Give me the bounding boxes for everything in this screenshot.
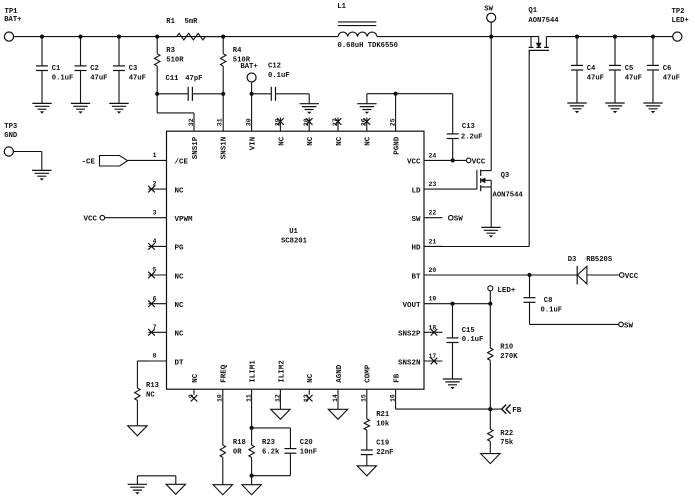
svg-text:R1: R1	[166, 18, 175, 26]
wire C8 to SW circle	[530, 323, 619, 325]
svg-text:ILIM1: ILIM1	[250, 360, 258, 383]
svg-text:R22: R22	[500, 430, 513, 438]
capacitor C6 47uF	[651, 35, 655, 39]
svg-text:HD: HD	[411, 245, 421, 253]
svg-text:/CE: /CE	[175, 159, 189, 167]
wire pin 16 FB down and right	[395, 389, 397, 409]
svg-text:BT: BT	[411, 273, 421, 281]
resistor R3 510R	[156, 37, 158, 54]
terminal BAT+ at VIN	[247, 73, 256, 82]
svg-text:0R: 0R	[233, 449, 242, 457]
wire pin 20 BT to D3	[443, 274, 578, 276]
svg-text:NC: NC	[307, 136, 315, 146]
svg-text:R23: R23	[262, 439, 275, 447]
pin 24 VCC right	[424, 159, 443, 161]
wire L1 to SW node to Q1 source	[377, 36, 539, 38]
svg-text:VPWM: VPWM	[175, 216, 194, 224]
capacitor C11 47pF	[155, 92, 159, 96]
ground R22 triangle	[481, 454, 500, 464]
net tag FB chevrons	[502, 405, 511, 414]
capacitor C5 47uF	[613, 35, 617, 39]
svg-text:R4: R4	[233, 47, 242, 55]
ground C19 triangle	[357, 466, 376, 476]
wire AGND to PGND tie	[137, 475, 175, 477]
svg-text:DT: DT	[175, 359, 185, 367]
pin 19 VOUT right	[424, 303, 443, 305]
svg-text:SC8201: SC8201	[281, 238, 308, 246]
ground pin 12 ILIM2 triangle	[279, 389, 281, 409]
resistor R18 0R	[220, 445, 225, 457]
ground R13 AGND triangle	[128, 426, 147, 436]
pin 28 NC top	[308, 118, 310, 132]
svg-text:47uF: 47uF	[90, 75, 107, 83]
wire pin 24 VCC to VCC circle	[443, 159, 467, 161]
resistor R1 5mR	[155, 35, 159, 39]
svg-text:NC: NC	[175, 302, 185, 310]
capacitor C8 0.1uF bootstrap	[529, 275, 531, 298]
svg-text:C2: C2	[90, 65, 99, 73]
svg-text:1: 1	[153, 152, 157, 159]
svg-text:SW: SW	[411, 216, 421, 224]
wire SNS1N node to pin 31	[222, 94, 224, 131]
svg-text:0.1uF: 0.1uF	[52, 75, 74, 83]
svg-text:24: 24	[429, 152, 437, 159]
resistor R13 NC	[135, 388, 140, 400]
svg-text:NC: NC	[175, 331, 185, 339]
svg-text:47uF: 47uF	[129, 75, 146, 83]
svg-text:FB: FB	[512, 407, 522, 415]
pin 4 PG left	[149, 245, 167, 247]
resistor R22 75k	[489, 409, 491, 429]
svg-text:75k: 75k	[500, 439, 514, 447]
svg-text:VCC: VCC	[83, 216, 97, 224]
svg-text:TP2: TP2	[672, 8, 685, 16]
pin 13 NC bottom	[308, 389, 310, 395]
svg-text:SNS1N: SNS1N	[221, 137, 229, 160]
wire C20 bottom to R23 bottom	[252, 475, 291, 477]
svg-text:C8: C8	[544, 297, 553, 305]
svg-text:C1: C1	[52, 65, 61, 73]
svg-text:5mR: 5mR	[185, 18, 199, 26]
svg-text:GND: GND	[4, 132, 18, 140]
wire Q1 drain to TP2	[546, 36, 672, 38]
ground C12	[300, 104, 319, 110]
svg-text:R21: R21	[376, 411, 390, 419]
svg-text:LED+: LED+	[497, 287, 516, 295]
svg-text:VCC: VCC	[472, 158, 486, 166]
wire pin 8 DT to R13	[137, 360, 148, 362]
wire pin 23 LD to Q3 gate	[443, 188, 477, 190]
svg-text:3: 3	[153, 209, 157, 216]
svg-text:L1: L1	[337, 3, 346, 11]
svg-text:LED+: LED+	[672, 17, 689, 25]
wire Q3 source to ground	[490, 187, 492, 227]
svg-text:NC: NC	[307, 373, 315, 383]
wire pin 25 PGND up	[395, 94, 397, 132]
pin 6 NC left	[149, 303, 167, 305]
svg-text:BAT+: BAT+	[240, 63, 257, 71]
svg-text:NC: NC	[175, 187, 185, 195]
svg-text:AON7544: AON7544	[493, 192, 524, 200]
svg-text:23: 23	[429, 181, 437, 188]
svg-text:VIN: VIN	[250, 137, 258, 151]
svg-text:22nF: 22nF	[376, 449, 393, 457]
svg-text:SW: SW	[624, 322, 634, 330]
svg-text:C15: C15	[462, 327, 475, 335]
svg-text:-CE: -CE	[81, 159, 95, 167]
wire top rail BAT+ to L1	[14, 36, 338, 38]
svg-text:VCC: VCC	[407, 159, 421, 167]
wire pin 11 ILIM1 to R23 and C20	[251, 389, 253, 428]
svg-text:R13: R13	[146, 382, 159, 390]
svg-text:Q1: Q1	[528, 7, 537, 15]
capacitor C4 47uF	[575, 35, 579, 39]
svg-text:FB: FB	[394, 373, 402, 383]
svg-text:2.2uF: 2.2uF	[461, 134, 483, 142]
svg-text:C5: C5	[625, 65, 634, 73]
wire TP3 to ground	[13, 151, 41, 153]
svg-text:47uF: 47uF	[587, 75, 604, 83]
svg-text:0.68uH TDK6550: 0.68uH TDK6550	[338, 42, 398, 50]
svg-text:C19: C19	[376, 439, 389, 447]
wire Q1 gate to HD pin 21	[528, 50, 530, 246]
svg-text:AGND: AGND	[336, 364, 344, 383]
wire SW node down to Q3 drain	[490, 37, 492, 171]
svg-text:SW: SW	[454, 216, 464, 224]
svg-text:R3: R3	[166, 47, 175, 55]
wire PGND rail	[367, 93, 453, 95]
svg-text:NC: NC	[175, 273, 185, 281]
capacitor C19 22nF	[361, 449, 373, 451]
capacitor C13 2.2uF	[452, 94, 454, 134]
svg-text:C11: C11	[166, 75, 180, 83]
svg-text:FREQ: FREQ	[221, 364, 229, 383]
svg-text:8: 8	[153, 353, 157, 360]
wire pin 19 VOUT	[443, 303, 491, 305]
wire pin 15 COMP to R21	[366, 389, 368, 419]
net label VCC at D3 anode	[619, 273, 624, 278]
svg-text:31: 31	[217, 118, 224, 126]
svg-text:0.1uF: 0.1uF	[541, 306, 563, 314]
svg-text:30: 30	[246, 118, 253, 126]
svg-text:32: 32	[188, 118, 195, 126]
svg-text:NC: NC	[336, 136, 344, 146]
capacitor C12 0.1uF	[252, 93, 272, 95]
svg-text:VCC: VCC	[625, 273, 639, 281]
capacitor C20 10nF	[284, 448, 296, 450]
ground tie earth	[128, 484, 147, 490]
svg-text:13: 13	[303, 394, 310, 402]
svg-text:Q3: Q3	[501, 172, 510, 180]
op-amp U1 SC8201 controller IC body	[167, 131, 425, 389]
pin 26 NC top	[366, 118, 368, 132]
capacitor C1 0.1uF	[40, 35, 44, 39]
resistor R21 10k	[364, 419, 369, 430]
pin 1 /CE left	[149, 159, 167, 161]
svg-text:PGND: PGND	[394, 136, 402, 155]
svg-text:270K: 270K	[500, 353, 518, 361]
svg-text:29: 29	[274, 118, 281, 126]
pin 20 BT right	[424, 274, 443, 276]
svg-text:47pF: 47pF	[185, 75, 202, 83]
svg-text:510R: 510R	[166, 57, 184, 65]
pin 8 DT left	[149, 360, 167, 362]
capacitor C15 0.1uF	[452, 304, 454, 338]
pin 9 NC bottom	[193, 389, 195, 395]
svg-text:R10: R10	[500, 343, 513, 351]
testpoint TP1 BAT+	[4, 32, 13, 41]
svg-text:47uF: 47uF	[663, 75, 680, 83]
ground C4	[567, 103, 586, 109]
pin 29 NC top	[279, 118, 281, 132]
ground C5	[605, 103, 624, 109]
pin 27 NC top	[337, 118, 339, 132]
svg-text:NC: NC	[278, 136, 286, 146]
pin 2 NC left	[149, 188, 167, 190]
pin 3 VPWM left	[149, 217, 167, 219]
svg-text:0.1uF: 0.1uF	[268, 72, 290, 80]
svg-text:20: 20	[429, 267, 437, 274]
ground R18 triangle	[213, 485, 232, 495]
wire pin 10 FREQ to R18	[222, 389, 224, 445]
svg-text:ILIM2: ILIM2	[278, 360, 286, 383]
svg-text:NC: NC	[365, 136, 373, 146]
pin 17 SNS2N right	[424, 360, 443, 362]
svg-text:C3: C3	[129, 65, 138, 73]
svg-text:0.1uF: 0.1uF	[462, 336, 484, 344]
svg-text:9: 9	[188, 394, 195, 398]
svg-text:10nF: 10nF	[300, 449, 317, 457]
svg-text:SW: SW	[484, 6, 493, 14]
ground Q3	[481, 227, 500, 233]
svg-text:26: 26	[361, 118, 368, 126]
svg-text:R18: R18	[233, 439, 246, 447]
pin 22 SW right	[424, 217, 443, 219]
svg-text:PG: PG	[175, 245, 185, 253]
svg-text:22: 22	[429, 210, 437, 217]
svg-text:28: 28	[303, 118, 310, 126]
svg-text:COMP: COMP	[365, 364, 373, 383]
svg-text:NC: NC	[146, 392, 155, 400]
ground R23 C20 triangle	[242, 485, 261, 495]
pin 18 SNS2P right	[424, 331, 443, 333]
svg-text:SNS2N: SNS2N	[398, 359, 421, 367]
svg-text:6.2k: 6.2k	[262, 449, 280, 457]
svg-text:RB520S: RB520S	[586, 256, 613, 264]
ground tie triangle	[166, 484, 185, 494]
ground C6	[643, 103, 662, 109]
pin 7 NC left	[149, 331, 167, 333]
testpoint TP2 LED+	[673, 32, 682, 41]
svg-text:U1: U1	[289, 228, 298, 236]
svg-text:SNS1P: SNS1P	[192, 136, 200, 159]
svg-text:VOUT: VOUT	[402, 302, 421, 310]
svg-text:C12: C12	[268, 63, 281, 71]
svg-text:47uF: 47uF	[625, 75, 642, 83]
net label SW at pin 22	[449, 215, 454, 220]
pin 23 LD right	[424, 188, 443, 190]
svg-text:TP1: TP1	[5, 8, 19, 16]
resistor R23 6.2k	[249, 445, 254, 457]
net label VCC at pin 24	[466, 158, 471, 163]
ground TP3	[32, 170, 51, 176]
capacitor C2 47uF	[78, 35, 82, 39]
svg-text:C6: C6	[663, 65, 672, 73]
ground pin 14 AGND triangle	[337, 389, 339, 409]
svg-text:NC: NC	[192, 373, 200, 383]
ground PGND	[357, 104, 376, 110]
svg-text:C13: C13	[462, 123, 475, 131]
resistor R10 270K	[489, 304, 491, 348]
svg-text:LD: LD	[411, 187, 421, 195]
svg-text:21: 21	[429, 238, 437, 245]
wire BAT+ to pin 30 VIN	[251, 94, 253, 131]
ground C15	[443, 379, 462, 385]
wire SNS1P node to pin 32	[156, 94, 158, 113]
ground C3	[109, 103, 128, 109]
svg-text:TP3: TP3	[4, 123, 17, 131]
svg-text:D3: D3	[568, 256, 577, 264]
svg-text:C20: C20	[300, 439, 313, 447]
pin 5 NC left	[149, 274, 167, 276]
ground C2	[71, 103, 90, 109]
ground C1	[32, 103, 51, 109]
resistor R4 510R	[222, 37, 224, 54]
svg-text:BAT+: BAT+	[4, 16, 21, 24]
svg-text:10k: 10k	[376, 421, 390, 429]
svg-text:AON7544: AON7544	[528, 17, 559, 25]
svg-text:C4: C4	[587, 65, 596, 73]
svg-text:19: 19	[429, 296, 437, 303]
net label LED+ at VOUT	[488, 286, 493, 291]
pin 21 HD right	[424, 245, 443, 247]
svg-text:SNS2P: SNS2P	[398, 331, 421, 339]
svg-text:27: 27	[332, 118, 339, 126]
capacitor C3 47uF	[117, 35, 121, 39]
net label SW at C8	[619, 322, 624, 327]
